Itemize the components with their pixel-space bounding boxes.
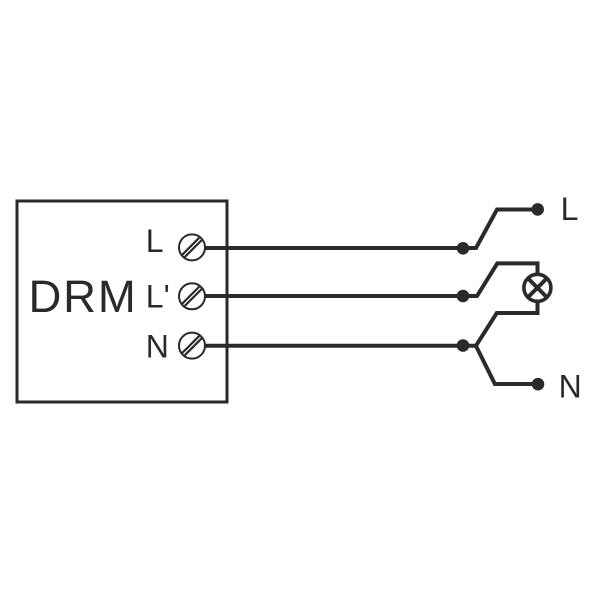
wire L' from terminal to lamp bbox=[205, 263, 538, 296]
lamp bbox=[524, 274, 551, 301]
junction L' bbox=[457, 290, 470, 303]
svg-text:L: L bbox=[146, 223, 164, 259]
contact dot N bbox=[532, 378, 545, 391]
wire L from terminal to switch to L contact bbox=[205, 210, 538, 249]
screw terminal L' bbox=[179, 283, 205, 309]
svg-text:L': L' bbox=[146, 278, 170, 314]
screw terminal N bbox=[179, 333, 205, 359]
svg-text:N: N bbox=[559, 369, 582, 405]
svg-text:L: L bbox=[561, 191, 579, 227]
junction L bbox=[457, 242, 470, 255]
contact dot L bbox=[531, 203, 544, 216]
svg-text:DRM: DRM bbox=[29, 271, 138, 322]
screw terminal L bbox=[179, 234, 205, 260]
junction N bbox=[457, 339, 470, 352]
svg-text:N: N bbox=[146, 329, 169, 365]
wire N from terminal to fork bbox=[205, 344, 476, 348]
wire fork down to N contact bbox=[476, 346, 538, 384]
wire fork up to lamp bottom bbox=[476, 301, 538, 346]
device box DRM bbox=[17, 201, 227, 402]
